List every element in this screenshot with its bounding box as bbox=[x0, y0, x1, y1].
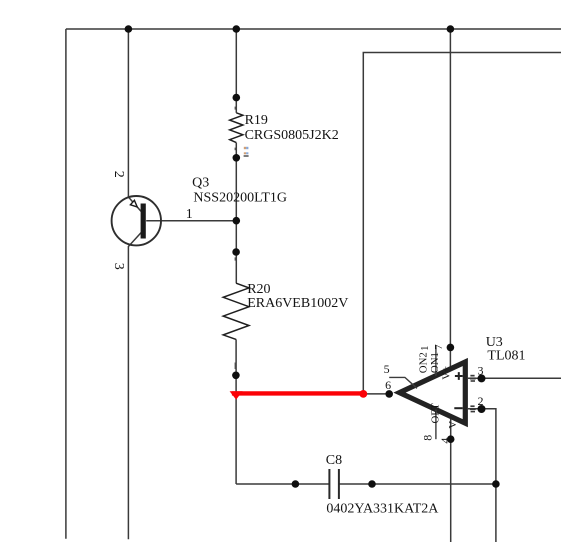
svg-text:3: 3 bbox=[478, 363, 484, 377]
svg-text:V+: V+ bbox=[441, 366, 453, 380]
wire top rail bbox=[66, 28, 561, 30]
node dot red net bbox=[359, 390, 367, 398]
svg-text:NSS20200LT1G: NSS20200LT1G bbox=[193, 191, 287, 206]
wire R20 to bottom node bbox=[235, 339, 237, 484]
svg-text:0402YA331KAT2A: 0402YA331KAT2A bbox=[326, 502, 439, 517]
capacitor C8 bbox=[329, 469, 339, 499]
svg-text:6: 6 bbox=[385, 378, 391, 392]
node dot R19 pin 2 bbox=[233, 94, 241, 102]
svg-text:TL081: TL081 bbox=[487, 348, 525, 363]
node dot base junction bbox=[233, 217, 241, 225]
node dot op-amp pin 7 bbox=[447, 344, 455, 352]
node dot R20 pin 2 bbox=[232, 248, 240, 256]
wire op-amp pin 2 to bottom node bbox=[468, 409, 496, 542]
node dot top rail / collector bbox=[125, 25, 133, 33]
node dot top rail / op-amp supply branch bbox=[447, 25, 455, 33]
node dot C8 right bbox=[368, 480, 376, 488]
op-amp U3 triangle bbox=[400, 362, 466, 423]
op-amp pin 5 stub bbox=[389, 377, 417, 388]
node dot R19 pin 1 bbox=[233, 154, 241, 162]
svg-text:5: 5 bbox=[384, 362, 390, 376]
op-amp minus input marker bbox=[454, 407, 462, 409]
svg-text:2: 2 bbox=[111, 171, 126, 178]
svg-text:V: V bbox=[447, 421, 459, 429]
pin marks R19 bottom bbox=[244, 147, 249, 157]
svg-text:2: 2 bbox=[478, 394, 484, 408]
node dot bottom right junction bbox=[492, 480, 500, 488]
wire bottom horizontal left of C8 bbox=[236, 483, 329, 485]
wire base (pin 1 of Q3) bbox=[146, 220, 236, 222]
wire top rail to R19 bbox=[235, 29, 237, 113]
svg-text:C8: C8 bbox=[326, 453, 342, 468]
resistor R20 bbox=[223, 283, 249, 339]
op-amp pin 8 stub bbox=[435, 410, 437, 440]
pin marks op-amp pin 2 bbox=[470, 405, 476, 412]
wire bottom horizontal right of C8 bbox=[339, 483, 496, 485]
svg-text:1: 1 bbox=[186, 207, 193, 222]
svg-text:ERA6VEB1002V: ERA6VEB1002V bbox=[247, 296, 348, 311]
wire emitter vertical (pin 3 of Q3) bbox=[128, 233, 141, 540]
svg-text:R20: R20 bbox=[247, 282, 270, 297]
highlighted net wire (red) bbox=[232, 391, 363, 395]
pin mark R20 top bbox=[235, 257, 237, 260]
op-amp pin 1 stub bbox=[435, 346, 437, 376]
svg-text:CRGS0805J2K2: CRGS0805J2K2 bbox=[245, 128, 339, 143]
transistor Q3 bbox=[112, 196, 161, 245]
node dot C8 left bbox=[292, 480, 300, 488]
pin marks op-amp pin 3 bbox=[470, 375, 476, 382]
node dot R20 pin 1 bbox=[232, 372, 240, 380]
node dot op-amp pin 4 bbox=[447, 435, 455, 443]
node dot op-amp pin 6 bbox=[385, 390, 393, 398]
node dot op-amp pin 3 bbox=[478, 374, 486, 382]
svg-text:7: 7 bbox=[433, 344, 445, 350]
svg-text:R19: R19 bbox=[245, 113, 268, 128]
svg-text:OFT: OFT bbox=[430, 403, 442, 424]
pin mark R20 bottom bbox=[235, 363, 237, 370]
svg-text:Q3: Q3 bbox=[192, 175, 209, 190]
pin mark R19 bottom bbox=[235, 148, 237, 151]
wire op-amp pin 7 from top rail bbox=[449, 29, 451, 369]
wire op-amp pin 3 output to right bbox=[468, 377, 561, 379]
svg-text:3: 3 bbox=[111, 263, 126, 270]
svg-text:4: 4 bbox=[438, 438, 452, 444]
wire collector vertical (pin 2 of Q3) bbox=[128, 29, 141, 212]
wire op-amp pin 4 down bbox=[450, 417, 452, 542]
wire upper-right rail bbox=[363, 53, 561, 394]
wire output node to op-amp pin 6 bbox=[363, 393, 389, 395]
op-amp plus input marker bbox=[455, 372, 463, 380]
wire left vertical bbox=[65, 29, 67, 539]
resistor R19 bbox=[230, 113, 243, 143]
wire R19 to R20 node bbox=[235, 143, 237, 284]
node dot op-amp pin 2 bbox=[478, 405, 486, 413]
svg-text:ON1: ON1 bbox=[429, 352, 441, 373]
svg-text:ON2: ON2 bbox=[417, 352, 429, 373]
node dot top rail / R19 branch bbox=[233, 25, 241, 33]
svg-text:1: 1 bbox=[419, 345, 431, 350]
highlighted net probe arrow bbox=[230, 391, 243, 399]
svg-text:8: 8 bbox=[421, 435, 435, 441]
pin mark R19 top bbox=[235, 107, 237, 110]
